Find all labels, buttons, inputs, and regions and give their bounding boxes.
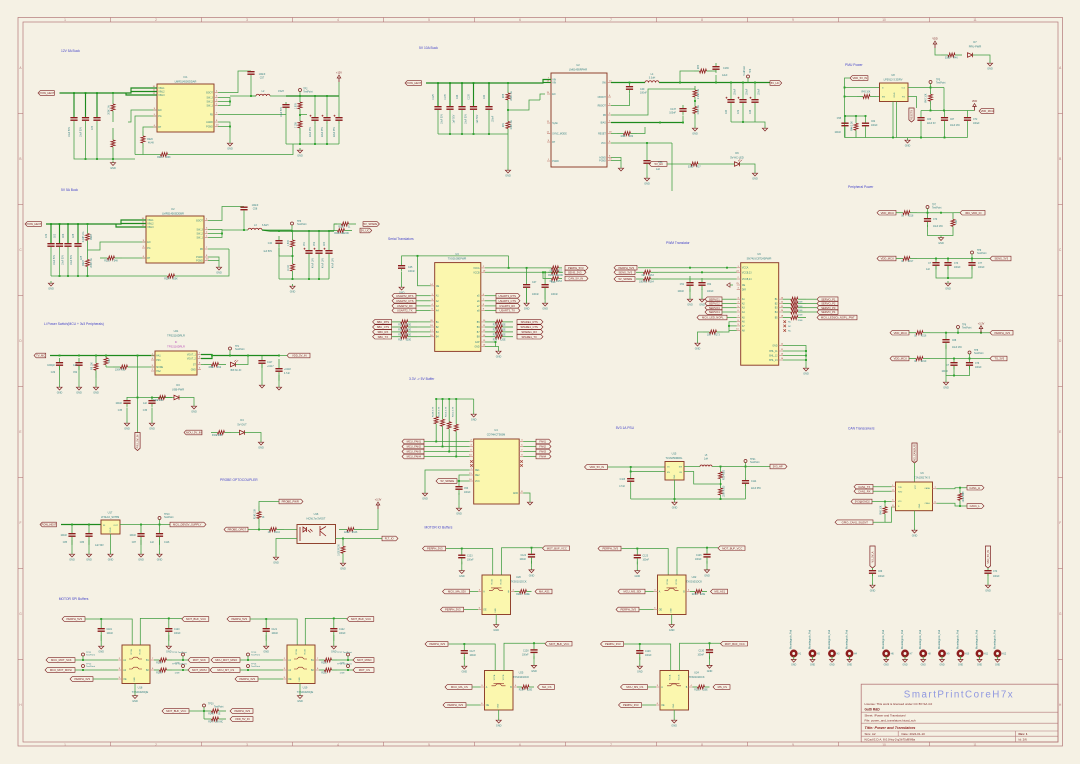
hier label VDD_MCU r4 <box>890 356 909 361</box>
wire <box>338 125 340 144</box>
resistor R221 100K <box>135 153 193 160</box>
test point TP5 <box>929 81 932 84</box>
svg-text:GND: GND <box>772 346 777 348</box>
wire <box>967 121 969 138</box>
U22 pin names <box>666 579 678 613</box>
resistor R110 0L <box>334 222 356 229</box>
junction <box>87 275 89 277</box>
svg-text:BHL_12: BHL_12 <box>769 356 778 358</box>
junction <box>159 524 161 526</box>
wire L2 to output <box>270 95 286 97</box>
svg-text:MCU_MOT_SCK: MCU_MOT_SCK <box>51 658 72 662</box>
svg-text:C126: C126 <box>696 555 702 557</box>
svg-text:100uF: 100uF <box>747 88 749 95</box>
svg-text:MOT_BUF_VCC: MOT_BUF_VCC <box>351 617 371 621</box>
wire <box>203 707 205 711</box>
svg-text:PMU Power: PMU Power <box>845 63 863 67</box>
U18 junction2 <box>168 617 170 619</box>
wire RESET <box>611 133 617 135</box>
pin B2 <box>430 325 439 329</box>
U18 pin B1 <box>146 658 154 662</box>
pin 5 PG <box>142 246 151 250</box>
svg-text:MODE: MODE <box>156 367 163 369</box>
junction <box>151 397 153 399</box>
svg-text:100nF: 100nF <box>272 633 279 635</box>
power VDD <box>932 38 937 48</box>
capacitor C125 <box>434 106 441 110</box>
svg-text:EN: EN <box>552 94 556 96</box>
svg-text:SN74LVC8T245PWR: SN74LVC8T245PWR <box>747 257 772 261</box>
svg-text:R219: R219 <box>921 361 927 363</box>
svg-text:CT2: CT2 <box>973 119 978 121</box>
svg-text:47uF 16V: 47uF 16V <box>323 258 325 268</box>
svg-text:C?: C? <box>928 263 932 265</box>
wire ldo out <box>120 524 170 526</box>
junction <box>892 137 894 139</box>
junction <box>67 223 69 225</box>
pin 6 RT <box>142 256 151 260</box>
junction <box>211 355 213 357</box>
wire <box>416 305 431 307</box>
svg-text:TP21: TP21 <box>750 459 756 461</box>
svg-text:VCCA: VCCA <box>130 649 133 655</box>
reference D3 <box>172 383 184 392</box>
svg-text:100uF: 100uF <box>973 123 980 125</box>
U19 ground3 <box>297 694 303 704</box>
svg-text:GND: GND <box>422 498 428 501</box>
svg-text:100uF: 100uF <box>759 88 761 95</box>
svg-text:Sheet: /Power and Translators/: Sheet: /Power and Translators/ <box>865 714 906 718</box>
ground <box>471 412 477 422</box>
U20 hier label PERPH_3V3 oe <box>441 607 464 612</box>
wire label link <box>424 446 443 448</box>
ground <box>905 138 911 148</box>
pin fan out 0 <box>519 440 523 442</box>
no-connect pin 12 <box>470 460 473 463</box>
pin 8 AGND <box>206 120 218 124</box>
svg-text:10uF 50V: 10uF 50V <box>71 255 73 265</box>
hier label MCU_FAN4 <box>402 454 424 459</box>
svg-text:SERVO_P3: SERVO_P3 <box>821 306 836 310</box>
U24 wire oe <box>642 704 656 706</box>
svg-text:22uF 35V: 22uF 35V <box>322 127 324 137</box>
svg-text:MOT_BUF_VCC: MOT_BUF_VCC <box>549 642 569 646</box>
svg-text:GND: GND <box>829 665 834 667</box>
svg-text:PR1: PR1 <box>156 360 161 362</box>
svg-text:VINL1: VINL1 <box>147 220 154 222</box>
svg-text:POW_HEXT: POW_HEXT <box>39 91 54 95</box>
svg-text:Mountingpole_Pad: Mountingpole_Pad <box>993 629 996 649</box>
pin A8 <box>736 329 745 333</box>
svg-text:POW_HEXT: POW_HEXT <box>406 81 421 85</box>
wire <box>658 278 737 280</box>
svg-text:Serial Translators: Serial Translators <box>388 237 414 241</box>
U18 ground2 <box>166 644 172 654</box>
resistor R8 <box>94 356 98 379</box>
U18 test point TP14 <box>182 665 185 668</box>
inductor L2 <box>256 94 270 96</box>
diode D5 indicator <box>231 360 239 367</box>
resistor R220b 10K <box>951 213 955 233</box>
svg-text:C40: C40 <box>484 94 486 99</box>
svg-text:100nF: 100nF <box>707 291 714 293</box>
svg-text:100nF: 100nF <box>129 535 136 537</box>
capacitor C49 100nF <box>626 83 633 94</box>
svg-text:GND: GND <box>635 575 641 578</box>
value C66 <box>927 119 936 125</box>
U19 junction out2 <box>347 669 349 671</box>
svg-text:PG: PG <box>902 97 905 99</box>
U18 capacitor C120 <box>165 619 172 641</box>
svg-text:R221: R221 <box>157 157 163 159</box>
wire out cap stub <box>742 83 744 100</box>
resistor R48 10K <box>883 502 887 520</box>
svg-text:R151 4.7K: R151 4.7K <box>452 406 454 417</box>
svg-text:TP20: TP20 <box>208 704 214 706</box>
svg-text:R47 10K: R47 10K <box>926 93 928 102</box>
reference D7 <box>969 40 982 49</box>
wire A6 A7 join <box>729 322 737 331</box>
wire psu in <box>608 466 666 468</box>
U22 wire <box>636 562 638 569</box>
svg-text:TestPoint: TestPoint <box>235 348 245 351</box>
svg-text:1uF: 1uF <box>656 168 661 171</box>
svg-text:100nF: 100nF <box>493 115 495 122</box>
junction <box>507 109 509 111</box>
hier label MCU_LED_NOPL <box>697 315 727 320</box>
mounting pad H2 <box>808 629 820 666</box>
hier label PRU_5V_IN <box>135 433 140 451</box>
U25 pin names <box>493 674 505 708</box>
svg-text:100K: 100K <box>165 157 171 159</box>
svg-text:VINL3: VINL3 <box>158 95 165 97</box>
svg-text:VCCB: VCCB <box>139 649 141 655</box>
svg-text:100K: 100K <box>172 279 178 281</box>
hier label SERVO4 <box>705 310 722 315</box>
wire C57 bottom to SW <box>251 75 256 96</box>
wire cap stub <box>967 111 969 118</box>
svg-text:200K 1%: 200K 1% <box>91 258 93 267</box>
svg-text:TestPoint: TestPoint <box>297 223 307 226</box>
wire <box>896 102 898 138</box>
U19 resistor R210 <box>319 658 337 665</box>
U22 junction2 <box>706 547 708 549</box>
svg-text:GND: GND <box>938 242 944 245</box>
junction <box>299 143 301 145</box>
svg-text:VCCB,23: VCCB,23 <box>742 272 752 274</box>
test point TP2 <box>299 89 314 94</box>
wire <box>436 441 470 443</box>
wire +12V stub <box>338 82 340 96</box>
svg-text:VCCB: VCCB <box>676 579 678 585</box>
capacitor C39 100uF <box>738 97 747 103</box>
U18 hier label MOT_BUF_VCC <box>182 617 209 622</box>
U19 tp text4 <box>337 663 352 666</box>
svg-text:U6: U6 <box>920 471 924 475</box>
svg-text:MOT_MISO: MOT_MISO <box>357 658 371 662</box>
svg-text:PGND: PGND <box>196 257 203 259</box>
U19 capacitor C121 <box>263 619 270 641</box>
svg-text:C45: C45 <box>408 266 413 269</box>
svg-text:C127: C127 <box>470 651 476 653</box>
svg-text:GND: GND <box>93 392 99 395</box>
svg-text:R173: R173 <box>714 335 720 337</box>
wire caps to gnd bus <box>74 121 135 159</box>
svg-text:10uF 16V: 10uF 16V <box>952 347 962 349</box>
capacitor C86 1uF <box>85 525 92 545</box>
svg-text:100nF: 100nF <box>993 576 1000 578</box>
pin 14 OE <box>430 284 439 288</box>
U19 wire out2 <box>337 669 353 671</box>
wire <box>126 92 157 94</box>
resistor R15 <box>298 115 302 134</box>
reference U2 <box>569 63 587 72</box>
resistor R224 100K <box>150 274 192 281</box>
wire pull net <box>189 710 204 712</box>
wire <box>873 486 892 488</box>
svg-text:USART2_RX: USART2_RX <box>397 304 413 308</box>
wire cap stub <box>473 83 475 106</box>
wire FB net <box>218 114 286 116</box>
wire <box>523 446 536 448</box>
svg-text:GND: GND <box>462 671 468 674</box>
U19 hier label PERPH_3V3 <box>235 677 258 682</box>
resistor R152 <box>548 270 563 277</box>
svg-text:C53: C53 <box>464 488 469 490</box>
U19 test point TP16 <box>247 665 250 668</box>
capacitor C44 <box>458 106 465 110</box>
tp6 text <box>962 325 972 330</box>
svg-text:LMR51450SDDBR: LMR51450SDDBR <box>162 212 184 216</box>
wire <box>957 329 959 333</box>
wire OE2 <box>459 475 470 481</box>
junction <box>689 267 691 269</box>
U24 hier label PERPH_3V3 oe <box>619 703 642 708</box>
U18 resistor R209 <box>154 668 172 675</box>
junction <box>461 82 463 84</box>
reference IC1 <box>175 75 197 84</box>
svg-text:Li Power Switch(MCU + 3v3 Peri: Li Power Switch(MCU + 3v3 Peripherals) <box>44 322 104 326</box>
svg-text:GND: GND <box>671 608 673 613</box>
svg-text:3.3uH: 3.3uH <box>649 76 656 79</box>
wire C45 gnd <box>401 272 403 286</box>
value C85 <box>60 535 67 544</box>
svg-text:H9: H9 <box>947 654 951 656</box>
U19 pin A2 <box>283 668 292 672</box>
value C77 <box>978 263 985 269</box>
capacitor C71 1uF <box>932 259 939 270</box>
svg-text:HA2: HA2 <box>156 370 161 373</box>
junction <box>137 355 139 357</box>
no-connect pin 11 <box>520 460 523 463</box>
wire <box>456 456 470 458</box>
svg-text:Mountingpole_Pad: Mountingpole_Pad <box>808 629 811 649</box>
svg-text:H10: H10 <box>965 654 970 656</box>
svg-text:330E R15: 330E R15 <box>212 435 223 437</box>
wire RT <box>143 127 157 131</box>
wire fb tap <box>279 248 293 256</box>
svg-text:Id: 2/6: Id: 2/6 <box>1019 737 1028 741</box>
hier label SBC_CTS <box>373 325 392 330</box>
wire RT <box>122 257 146 259</box>
svg-text:5V3@GND2: 5V3@GND2 <box>855 500 870 504</box>
svg-text:R210: R210 <box>321 663 327 665</box>
svg-text:100nF: 100nF <box>470 655 477 657</box>
junction <box>930 87 932 89</box>
U18 hier label MCU_MOT_SCK <box>46 658 75 663</box>
svg-text:CBOOT: CBOOT <box>598 97 607 99</box>
value C62 <box>871 121 878 127</box>
wire <box>730 103 732 122</box>
wire EN <box>631 467 665 472</box>
resistor R30 <box>693 86 697 101</box>
wire cap stub C61 <box>338 96 340 113</box>
pin 7 FB <box>200 247 208 251</box>
reference U9 <box>747 252 772 261</box>
wire opto input <box>248 529 262 531</box>
svg-text:R164: R164 <box>648 282 654 284</box>
svg-text:R38: R38 <box>503 93 505 98</box>
junction <box>326 143 328 145</box>
value R38 200K <box>503 91 513 100</box>
U20 pin OE <box>478 608 487 612</box>
svg-text:7: 7 <box>610 743 612 747</box>
svg-text:H: H <box>1059 703 1062 707</box>
svg-text:VDD_5V_IN: VDD_5V_IN <box>292 354 307 358</box>
hier label SBC_5V_IN <box>985 546 990 568</box>
svg-text:100nF: 100nF <box>941 371 948 373</box>
wire <box>745 467 747 479</box>
pin fan in 0 <box>470 440 474 442</box>
wire SW bundle <box>208 230 222 238</box>
svg-text:U18: U18 <box>138 686 143 690</box>
hier label PERPH_5V3 <box>614 265 637 270</box>
wire <box>131 88 157 92</box>
svg-text:100nF: 100nF <box>107 633 114 635</box>
junction <box>250 95 252 97</box>
svg-text:D3: D3 <box>176 383 180 387</box>
svg-text:GPIO_CAN1_SILENT: GPIO_CAN1_SILENT <box>842 520 869 524</box>
svg-text:R45 10K: R45 10K <box>862 92 871 94</box>
wire <box>78 366 80 385</box>
svg-text:100nF: 100nF <box>643 560 650 562</box>
U18 tp text <box>86 652 95 657</box>
U25 wire <box>463 657 465 664</box>
svg-text:SW_1: SW_1 <box>207 106 214 108</box>
svg-text:FAN2: FAN2 <box>539 445 546 449</box>
U18 pin A1 <box>118 658 127 662</box>
junction <box>437 82 439 84</box>
wire VCCB rail <box>485 271 563 273</box>
transceiver U6 TJA1051 <box>896 482 933 511</box>
diode D4 <box>240 430 245 434</box>
svg-text:7.15K: 7.15K <box>296 122 298 128</box>
hier label PROBE_PWR <box>279 499 303 504</box>
svg-text:GND: GND <box>216 272 222 275</box>
U18 hier label MCU_MOT_MOSI <box>45 668 75 673</box>
junction <box>943 110 945 112</box>
junction <box>694 100 696 102</box>
svg-text:GND: GND <box>529 574 535 577</box>
U18 tp text2 <box>86 664 95 669</box>
svg-text:CAN Transceivers: CAN Transceivers <box>848 427 875 431</box>
test point TP20 <box>203 704 206 707</box>
U25 ground <box>462 664 468 674</box>
svg-text:HA1: HA1 <box>156 355 161 358</box>
svg-text:TP10: TP10 <box>164 514 170 516</box>
svg-text:GND: GND <box>943 387 949 390</box>
svg-text:GND: GND <box>495 608 497 613</box>
pin fan out 1 <box>519 445 523 447</box>
junction <box>291 230 293 232</box>
svg-text:120E: 120E <box>344 532 350 534</box>
svg-text:VCCA: VCCA <box>295 649 298 655</box>
U18 reference U18 <box>132 686 149 695</box>
wire cap stub C33 <box>85 93 87 117</box>
svg-text:SYNC_MODE: SYNC_MODE <box>552 134 567 136</box>
junction <box>96 92 98 94</box>
tp4 text <box>743 66 752 76</box>
wire gnd bus pmu <box>845 137 968 139</box>
svg-text:SERVO_P2: SERVO_P2 <box>821 302 836 306</box>
junction <box>112 92 114 94</box>
wire <box>715 75 717 83</box>
svg-text:GND: GND <box>531 670 537 673</box>
hier label FLT_IO <box>382 536 398 541</box>
svg-text:VINL3: VINL3 <box>147 227 154 229</box>
U19 wire <box>265 635 267 644</box>
U19 wire gnd <box>299 684 301 694</box>
ground <box>191 404 197 414</box>
svg-text:GND: GND <box>513 493 518 495</box>
wire <box>192 249 229 276</box>
pull-up resistor R148 <box>434 399 438 442</box>
svg-text:GND: GND <box>496 725 502 728</box>
svg-text:GND: GND <box>985 590 991 593</box>
svg-text:G: G <box>19 612 22 616</box>
wire 12V out bus <box>286 95 339 97</box>
junction <box>728 325 730 327</box>
capacitor C61 22uF 35V <box>334 113 343 125</box>
wire SW to L3 <box>222 229 248 231</box>
U20 wire rail1 <box>446 549 493 576</box>
tp21 text <box>750 459 760 464</box>
pin 10 SW <box>602 81 612 85</box>
wire <box>729 325 737 327</box>
svg-text:LTNL10_S0T89: LTNL10_S0T89 <box>101 515 120 519</box>
wire <box>135 366 155 368</box>
svg-text:TP2: TP2 <box>303 89 308 91</box>
junction <box>455 456 457 458</box>
svg-text:100nF: 100nF <box>695 559 702 561</box>
value CT2 <box>973 119 980 125</box>
resistor R47 10K <box>929 92 933 105</box>
svg-text:OE: OE <box>742 285 746 287</box>
wire 5V10A input bus <box>426 82 540 84</box>
resistor R46 330E <box>941 53 962 60</box>
U22 wire in <box>645 591 654 593</box>
svg-text:CAN1_H: CAN1_H <box>969 486 980 490</box>
capacitor C63 <box>56 243 63 247</box>
capacitor C85 100nF <box>68 525 75 545</box>
resistor R153 <box>548 277 562 284</box>
U18 ground <box>98 644 104 654</box>
svg-text:10K: 10K <box>707 335 712 337</box>
wire <box>523 441 536 443</box>
svg-text:100nF: 100nF <box>174 633 181 635</box>
hier label SENS_3V3 r2 <box>990 256 1011 261</box>
svg-text:120E: 120E <box>797 320 803 322</box>
